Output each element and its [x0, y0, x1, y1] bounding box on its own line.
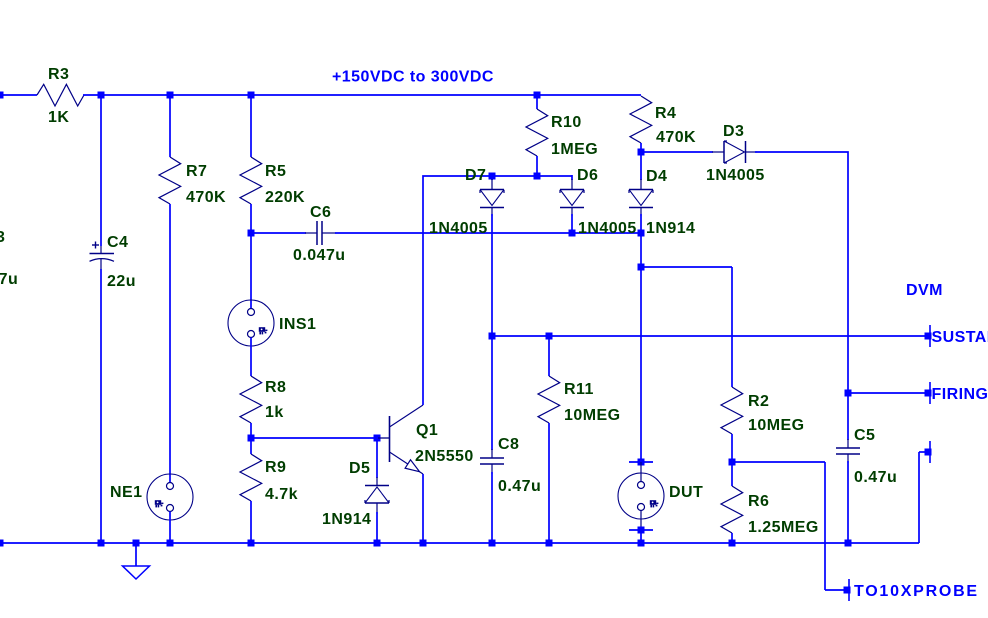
junction: ground rail / R9: [248, 540, 255, 547]
resistor R9 (4.7k): [240, 454, 262, 501]
svg-text:R6: R6: [748, 493, 769, 510]
port SUSTAIN: [925, 333, 932, 340]
junction: DUT top / R2 tap node: [638, 264, 645, 271]
svg-text:470K: 470K: [186, 189, 226, 206]
wire: DVM common down to ground rail: [918, 452, 920, 543]
socket bar: DUT anode: [629, 461, 653, 463]
svg-text:4.7k: 4.7k: [265, 486, 298, 503]
resistor R7 (470K): [159, 157, 181, 204]
wire: divider node over to probe column: [732, 461, 825, 463]
wire: C6 left: [251, 232, 306, 234]
socket bar: DUT cathode: [629, 529, 653, 531]
wire: Q1 collector up and over to D6: [423, 176, 572, 405]
junction: top rail / R5 branch: [248, 92, 255, 99]
svg-text:Q1: Q1: [416, 422, 438, 439]
junction: top rail / C4 branch: [98, 92, 105, 99]
svg-text:R10: R10: [551, 114, 582, 131]
wire: C6 right to D6/D4 cathode rail: [335, 232, 641, 234]
wire: C4 branch lower: [100, 246, 102, 254]
wire: C4 branch upper: [100, 95, 102, 246]
diode D5 (1N914, cathode up): [376, 477, 378, 486]
wire: ground rail: [0, 542, 919, 544]
junction: ground rail / C4: [98, 540, 105, 547]
junction: ground rail / R11: [546, 540, 553, 547]
junction: DUT anode pin: [638, 459, 645, 466]
svg-text:R7: R7: [186, 163, 207, 180]
svg-text:1N4005: 1N4005: [578, 220, 637, 237]
svg-text:FIRING: FIRING: [932, 386, 988, 403]
svg-text:220K: 220K: [265, 189, 305, 206]
svg-text:1k: 1k: [265, 404, 284, 421]
wire: C8 to ground rail: [491, 472, 493, 543]
wire: R7 to NE1: [169, 204, 171, 483]
svg-text:1.25MEG: 1.25MEG: [748, 519, 819, 536]
junction: C8/sustain node: [489, 333, 496, 340]
resistor R10 (1MEG): [526, 109, 548, 156]
resistor R8 (1k): [240, 376, 262, 423]
junction: top rail / R10 branch: [534, 92, 541, 99]
svg-text:C8: C8: [498, 436, 519, 453]
svg-text:1MEG: 1MEG: [551, 141, 598, 158]
junction: D4 cathode node: [638, 230, 645, 237]
wire: D3 anode from R4 node: [641, 151, 713, 153]
wire: C5 to ground rail: [847, 461, 849, 543]
wire: R8 to base node: [250, 423, 252, 454]
svg-text:R9: R9: [265, 459, 286, 476]
junction: ground rail / C8: [489, 540, 496, 547]
svg-text:R3: R3: [48, 66, 69, 83]
junction: ground rail / NE1: [167, 540, 174, 547]
svg-text:22u: 22u: [107, 273, 136, 290]
wire: R7 branch upper: [169, 95, 171, 157]
neon bulb DUT: [640, 462, 642, 482]
junction: R5/C6/INS1 node: [248, 230, 255, 237]
svg-text:R4: R4: [655, 105, 676, 122]
wire: DUT to ground rail: [640, 530, 642, 543]
svg-text:0.47u: 0.47u: [0, 271, 18, 288]
svg-text:DUT: DUT: [669, 484, 703, 501]
wire: node to R2 branch: [641, 266, 732, 268]
junction: ground rail / ground symbol: [133, 540, 140, 547]
wire: R6 to ground rail: [731, 533, 733, 543]
junction: R4/D3/D4 node: [638, 149, 645, 156]
port DVM common: [925, 449, 932, 456]
wire: firing line to port: [848, 392, 928, 394]
wire: +150VDC top rail left segment (to off-page): [0, 94, 37, 96]
junction: ground rail at left edge: [0, 540, 4, 547]
diode D7 (1N4005): [491, 176, 493, 180]
wire: R10 branch upper: [536, 95, 538, 109]
capacitor C8 (0.47u): [491, 449, 493, 458]
svg-text:R11: R11: [564, 381, 594, 398]
wire: R10 bottom to node: [536, 156, 538, 176]
wire: probe row to port: [825, 589, 847, 591]
svg-text:1N4005: 1N4005: [429, 220, 488, 237]
resistor R4 (470K): [630, 96, 652, 143]
wire: R2 bottom to divider node: [731, 434, 733, 486]
junction: D6 cathode node: [569, 230, 576, 237]
svg-text:C4: C4: [107, 234, 128, 251]
capacitor C5 (0.47u): [847, 439, 849, 448]
capacitor C4 (22u polarized): [90, 253, 115, 255]
wire: node to INS1: [250, 233, 252, 309]
wire: D4 cathode down to DUT branch: [640, 214, 642, 462]
svg-text:1N914: 1N914: [646, 220, 695, 237]
svg-text:D5: D5: [349, 460, 370, 477]
svg-text:0.47u: 0.47u: [854, 469, 897, 486]
diode D6 (1N4005): [571, 175, 573, 180]
wire: R9 to ground rail: [250, 501, 252, 543]
svg-text:D6: D6: [577, 167, 598, 184]
junction: R10 bottom node: [534, 173, 541, 180]
svg-text:INS1: INS1: [279, 316, 316, 333]
svg-text:+150VDC to 300VDC: +150VDC to 300VDC: [332, 69, 494, 86]
svg-text:1N4005: 1N4005: [706, 167, 765, 184]
svg-text:10MEG: 10MEG: [748, 417, 805, 434]
svg-text:R2: R2: [748, 393, 769, 410]
wire: R2 branch upper: [731, 267, 733, 387]
wire: R11 tap on sustain line: [548, 336, 550, 376]
wire: R11 to ground rail: [548, 423, 550, 543]
junction: ground rail / R6: [729, 540, 736, 547]
svg-text:R5: R5: [265, 163, 286, 180]
junction: R11 top node: [546, 333, 553, 340]
neon bulb NE1: [147, 474, 193, 520]
wire: DVM common port stub: [919, 451, 928, 453]
svg-text:10MEG: 10MEG: [564, 407, 621, 424]
svg-text:R8: R8: [265, 379, 286, 396]
svg-text:0.47u: 0.47u: [498, 478, 541, 495]
wire: R4 bottom to D3/D4 node: [640, 143, 642, 152]
junction: top rail at left edge: [0, 92, 4, 99]
svg-text:470K: 470K: [656, 129, 696, 146]
svg-text:D7: D7: [465, 167, 486, 184]
junction: ground rail / Q1 emitter: [420, 540, 427, 547]
wire: R5 to C6 node: [250, 204, 252, 233]
resistor R11 (10MEG): [538, 376, 560, 423]
wire: base wire R8 node to Q1: [251, 437, 378, 439]
svg-text:NE1: NE1: [110, 484, 142, 501]
junction: D5 anode tap: [374, 435, 381, 442]
wire: D7 cathode down to sustain node: [491, 214, 493, 336]
wire: NE1 to ground rail: [169, 512, 171, 544]
junction: firing tap on C5 branch: [845, 390, 852, 397]
wire: D6 cathode to node: [571, 214, 573, 233]
diode D3 (1N4005): [712, 151, 724, 153]
junction: ground rail / C5: [845, 540, 852, 547]
svg-text:C3: C3: [0, 229, 5, 246]
neon bulb INS1: [228, 300, 274, 346]
wire: D4 branch: [640, 152, 642, 180]
wire: probe column down: [824, 462, 826, 590]
ground symbol: [135, 543, 137, 566]
wire: sustain node down to C8: [491, 336, 493, 450]
svg-text:C5: C5: [854, 427, 875, 444]
transistor Q1 (2N5550 NPN): [378, 405, 423, 474]
wire: sustain line to port: [492, 335, 928, 337]
wire: R5 branch upper: [250, 95, 252, 157]
capacitor C6 (0.047u): [305, 232, 317, 234]
junction: ground rail / D5: [374, 540, 381, 547]
wire: D3 cathode over and down to C5 branch: [755, 152, 848, 440]
svg-text:2N5550: 2N5550: [415, 448, 474, 465]
svg-text:1N914: 1N914: [322, 511, 371, 528]
junction: D7 anode node: [489, 173, 496, 180]
svg-text:C6: C6: [310, 204, 331, 221]
resistor R2 (10MEG): [721, 387, 743, 434]
resistor R3 (1K) in top rail: [37, 84, 84, 106]
junction: DUT cathode pin: [638, 527, 645, 534]
junction: ground rail / DUT: [638, 540, 645, 547]
svg-text:0.047u: 0.047u: [293, 247, 346, 264]
svg-text:D4: D4: [646, 168, 667, 185]
wire: +150VDC top rail main segment: [83, 94, 641, 96]
junction: R8/R9/base node: [248, 435, 255, 442]
resistor R5 (220K): [240, 157, 262, 204]
svg-text:TO10XPROBE: TO10XPROBE: [854, 583, 979, 600]
junction: R2/R6 divider node: [729, 459, 736, 466]
svg-text:SUSTAIN: SUSTAIN: [932, 329, 988, 346]
wire: INS1 to R8: [250, 338, 252, 377]
port FIRING: [925, 390, 932, 397]
wire: D5 branch upper: [376, 438, 378, 478]
wire: Q1 emitter to ground rail: [422, 474, 424, 543]
svg-text:D3: D3: [723, 123, 744, 140]
diode D4 (1N914): [640, 179, 642, 190]
resistor R6 (1.25MEG): [721, 486, 743, 533]
junction: top rail / R7 branch: [167, 92, 174, 99]
svg-text:DVM: DVM: [906, 282, 943, 299]
wire: D5 to ground rail: [376, 512, 378, 543]
svg-text:1K: 1K: [48, 109, 69, 126]
port TO10XPROBE: [844, 587, 851, 594]
